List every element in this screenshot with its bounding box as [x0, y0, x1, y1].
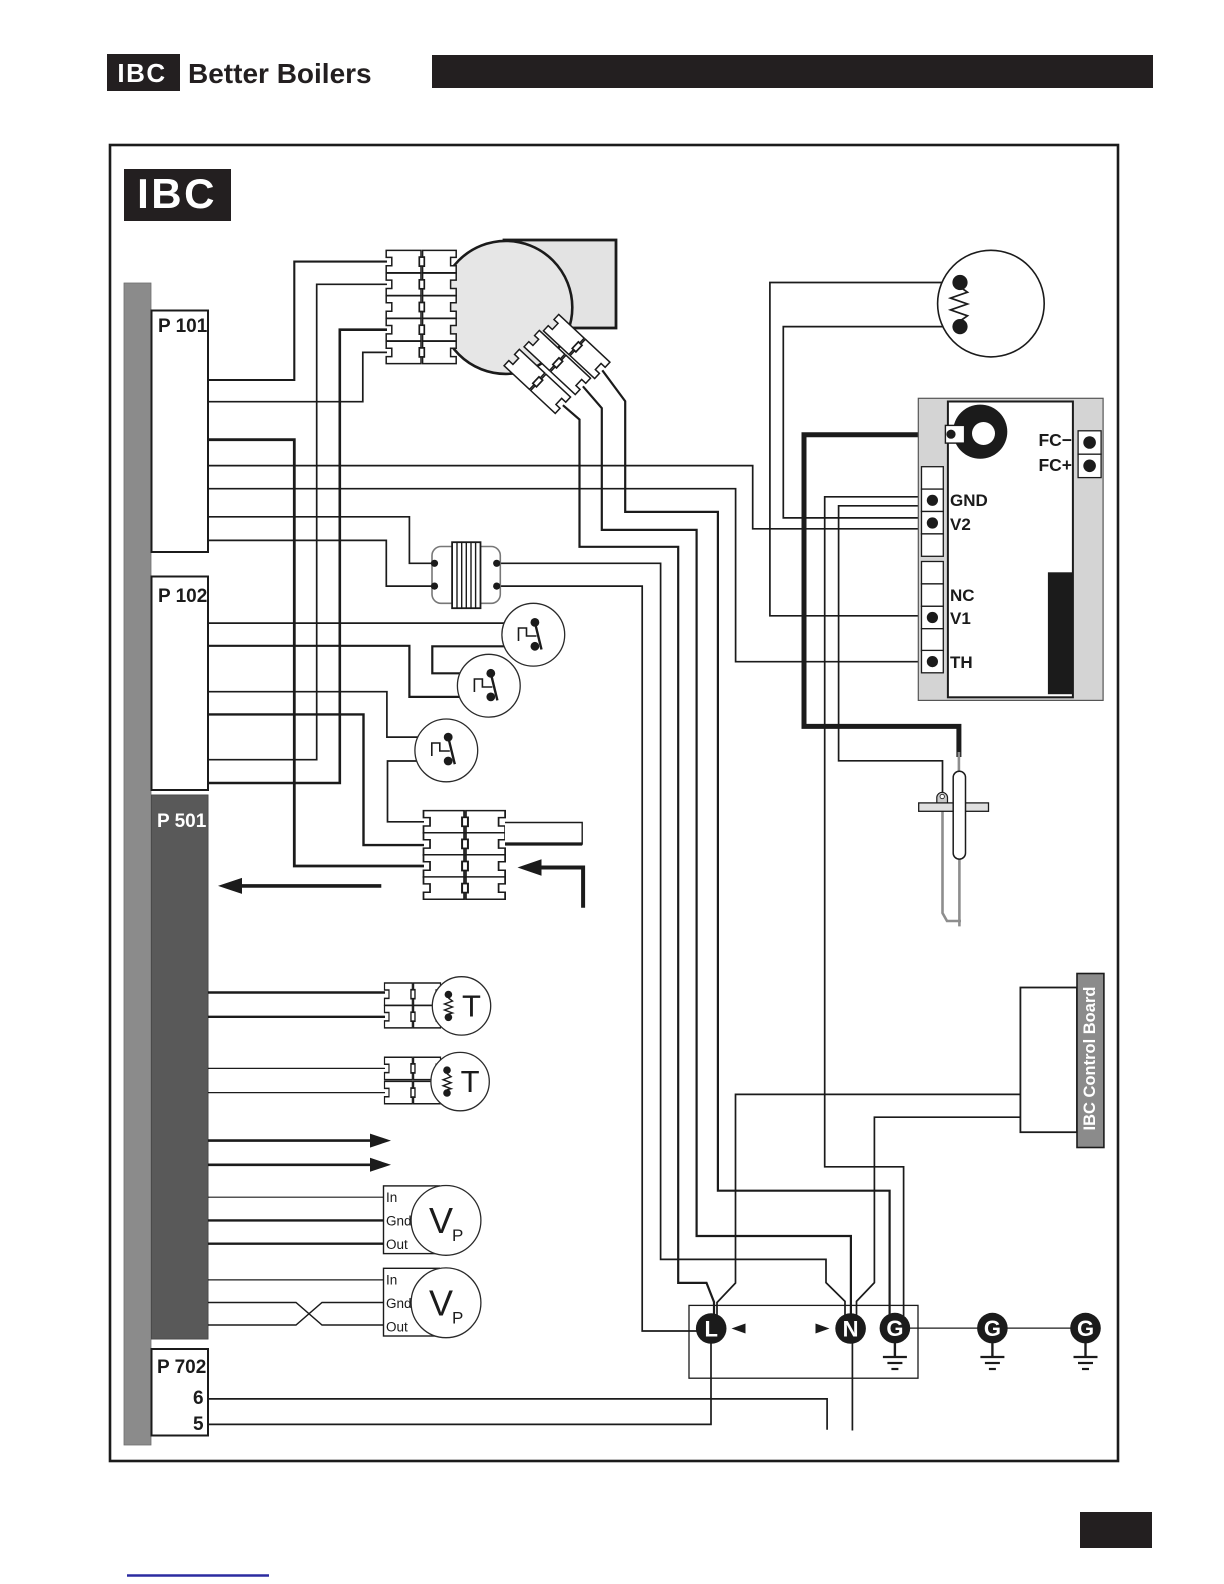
svg-text:Better Boilers: Better Boilers: [188, 58, 372, 89]
wire transformer pin3 to neutral N (left slant): [495, 563, 845, 1316]
wire P501 to sensor VP1 Out (thick): [208, 1242, 384, 1244]
svg-text:GND: GND: [950, 491, 988, 510]
sensor T1: [385, 977, 491, 1035]
valve FC terminals: [1078, 431, 1101, 454]
blower motor circle: [439, 241, 572, 374]
svg-text:L: L: [704, 1317, 717, 1342]
svg-text:Gnd: Gnd: [386, 1214, 412, 1229]
wire P102-5 to blower plug row2: [208, 284, 387, 759]
svg-text:IBC Control Board: IBC Control Board: [1081, 987, 1099, 1131]
P501 arrow 2: [208, 1158, 391, 1172]
wire igniter bottom to valve V2: [783, 327, 960, 518]
wire P501 to sensor VP1 In: [208, 1196, 384, 1198]
plug P-four row3: [424, 855, 506, 877]
wire P101-5 to valve TH: [208, 489, 926, 662]
diagram IBC logo: [124, 169, 231, 221]
wire P102-2 to switch S2 bottom: [208, 646, 491, 697]
svg-text:V: V: [429, 1282, 453, 1323]
wire P101-3 to plug P-four row3 (thick): [208, 440, 424, 866]
svg-text:V2: V2: [950, 515, 971, 534]
blower plug row1: [386, 250, 456, 272]
blower diagonal plug row2: [524, 330, 590, 394]
blower plug row2: [386, 273, 456, 295]
blower diagonal plug row3: [504, 349, 570, 413]
svg-text:Out: Out: [386, 1319, 408, 1334]
limit switch S2: [457, 654, 520, 717]
header IBC logo: [107, 54, 180, 91]
valve terminal strip: [922, 467, 944, 673]
svg-text:FC+: FC+: [1038, 455, 1072, 475]
blower diagonal plug row1: [543, 314, 609, 378]
svg-text:6: 6: [193, 1388, 204, 1409]
diagram border frame: [110, 145, 1118, 1461]
ground terminal G2: [977, 1313, 1008, 1369]
wire transformer pin4 to line L (side tee): [495, 586, 697, 1331]
wire P101-6 to transformer pin1: [208, 517, 436, 564]
svg-text:IBC: IBC: [117, 58, 166, 88]
wire P702 pin6 stub: [208, 1399, 827, 1430]
blower plug row4: [386, 319, 456, 341]
wire blower lead B to neutral terminal N: [583, 386, 851, 1316]
valve solenoid coil: [953, 405, 1007, 459]
valve terminal dots: [927, 495, 938, 506]
igniter circle: [938, 250, 1045, 357]
sensor VP2: [384, 1268, 481, 1338]
wire control board feed 1 to line L: [717, 1094, 1021, 1318]
svg-text:Out: Out: [386, 1237, 408, 1252]
limit switch S1: [502, 603, 565, 666]
terminal box: [689, 1305, 918, 1378]
wire P101-4 to valve V2: [208, 466, 926, 529]
wire P501 to sensor T2 pin1: [208, 1067, 385, 1069]
wire valve GND to ground terminal G1: [825, 497, 926, 1316]
connector P 101 box: [152, 311, 209, 553]
blower plug row3: [386, 296, 456, 318]
svg-text:IBC: IBC: [137, 170, 217, 217]
IBC control board: [1020, 974, 1104, 1148]
thermostat arrow: [518, 859, 584, 908]
wire igniter top to valve V1: [770, 283, 960, 616]
svg-text:NC: NC: [950, 586, 975, 605]
line terminal L: [696, 1313, 746, 1344]
plug P-four row4: [424, 877, 506, 899]
flame electrode assembly: [919, 752, 989, 926]
wire P501 to sensor VP2 In: [208, 1279, 384, 1281]
wire blower lead A to ground terminal G1: [602, 370, 889, 1316]
svg-text:P 702: P 702: [157, 1357, 206, 1378]
long left arrow: [218, 878, 381, 894]
wire valve GND-2 to spark electrode: [839, 506, 943, 794]
wire blower lead C to line terminal L: [563, 405, 714, 1318]
neutral terminal N: [816, 1313, 866, 1344]
wire control board feed 2 to neutral N: [857, 1117, 1022, 1316]
thick gas valve solenoid wire: [804, 435, 959, 757]
ground terminal G3: [1070, 1313, 1101, 1369]
plug P-four row2: [424, 833, 506, 855]
svg-text:V: V: [429, 1200, 453, 1241]
svg-text:In: In: [386, 1190, 397, 1205]
sensor VP1: [384, 1186, 481, 1256]
plug P-four row1: [424, 811, 506, 833]
svg-text:T: T: [462, 989, 481, 1024]
svg-text:V1: V1: [950, 609, 971, 628]
wire P101-2 to blower plug row5: [208, 352, 387, 401]
connector P 501 box: [152, 795, 209, 1339]
wire P102-1 to switch S1 top: [208, 622, 535, 624]
svg-text:G: G: [886, 1316, 903, 1341]
transformer T1: [431, 542, 500, 608]
wire P501 to sensor VP1 Gnd (thick): [208, 1219, 384, 1221]
svg-text:G: G: [984, 1316, 1001, 1341]
blower motor housing: [504, 240, 616, 328]
wire switch S3 bottom to plug P-four row1: [388, 761, 449, 822]
limit switch S3: [415, 719, 478, 782]
wire P101-1 to blower plug row1: [208, 262, 387, 380]
svg-text:FC−: FC−: [1038, 430, 1072, 450]
svg-text:P 101: P 101: [158, 316, 208, 337]
wire P501 to sensor T1 pin2 (thick): [208, 1016, 385, 1018]
wire neutral N bottom stub: [851, 1342, 853, 1431]
wire P501 to sensor T2 pin2: [208, 1092, 385, 1094]
wire P102-6 to blower plug row4 (thick): [208, 330, 387, 783]
svg-text:P: P: [452, 1226, 463, 1245]
svg-text:G: G: [1077, 1316, 1094, 1341]
svg-text:In: In: [386, 1272, 397, 1287]
wire P102-4 to plug P-four row2 (thick): [208, 714, 424, 845]
connector P 102 box: [152, 577, 209, 791]
valve black block: [1048, 572, 1073, 694]
ground terminal G1: [880, 1313, 911, 1369]
connector P 702 box: [152, 1349, 209, 1436]
valve terminal labels: [950, 491, 988, 672]
field wiring cable stub: [505, 823, 582, 845]
wire P501 to sensor VP2 Out (crossover): [208, 1303, 384, 1326]
blower plug row5: [386, 341, 456, 363]
wire P101-7 to transformer pin2: [208, 540, 436, 586]
svg-text:P: P: [452, 1308, 463, 1327]
WIRES-LAYER-1: [208, 262, 1021, 1431]
svg-text:Gnd: Gnd: [386, 1296, 412, 1311]
footer black box: [1080, 1512, 1152, 1548]
wire P501 to sensor T1 pin1 (thick): [208, 991, 385, 993]
header black bar: [432, 55, 1153, 88]
P501 arrow 1: [208, 1134, 391, 1148]
wire P702 pin5 to line L bottom: [208, 1342, 711, 1424]
svg-text:T: T: [461, 1064, 480, 1099]
sensor T2: [385, 1052, 490, 1110]
svg-text:P 102: P 102: [158, 586, 207, 607]
wire P501 to sensor VP2 Gnd (crossover): [208, 1303, 384, 1326]
left harness gray bar: [124, 283, 151, 1445]
wire P102-3 to switch S3 top: [208, 692, 448, 737]
gas valve body: [918, 398, 1103, 700]
svg-text:TH: TH: [950, 653, 973, 672]
svg-text:N: N: [843, 1317, 859, 1342]
svg-text:5: 5: [193, 1414, 204, 1435]
wire switch S1 bottom to switch S2 top: [432, 646, 535, 673]
ground bus wire: [910, 1327, 1086, 1329]
footer blue rule: [127, 1574, 269, 1577]
svg-text:P 501: P 501: [157, 811, 207, 832]
